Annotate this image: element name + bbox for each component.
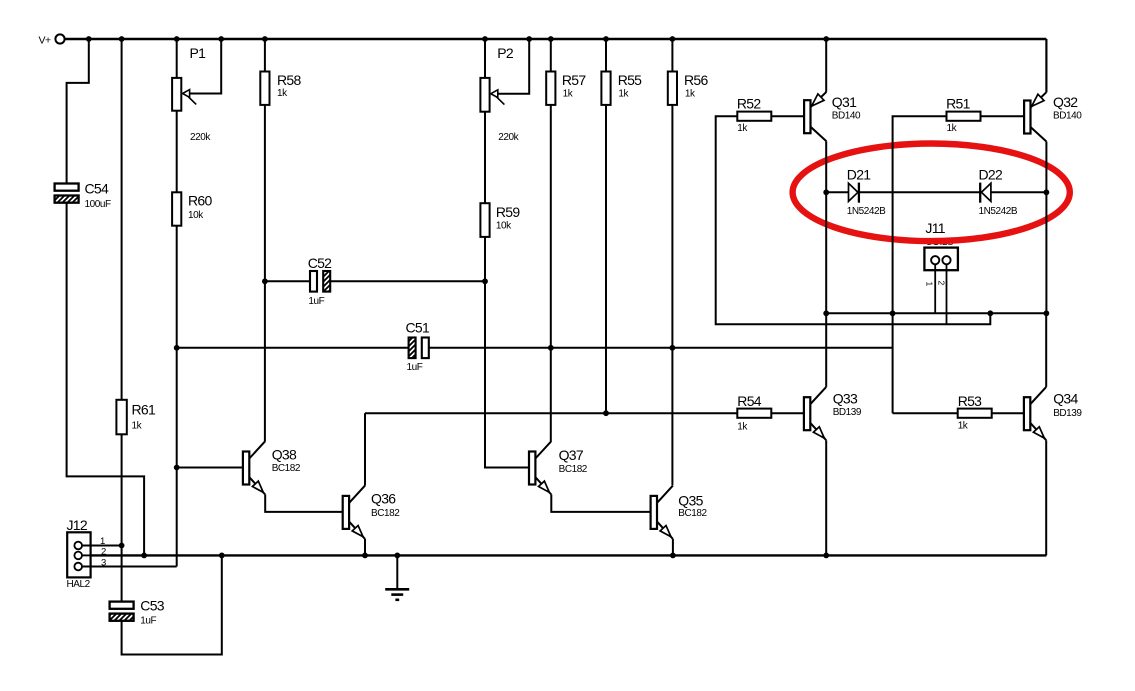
- svg-text:10k: 10k: [188, 210, 204, 221]
- svg-text:1uF: 1uF: [407, 362, 423, 373]
- svg-text:BD140: BD140: [1053, 110, 1082, 121]
- svg-text:D21: D21: [847, 167, 871, 183]
- svg-text:BD139: BD139: [833, 407, 862, 418]
- svg-text:1uF: 1uF: [140, 616, 156, 627]
- svg-text:1k: 1k: [277, 88, 288, 99]
- svg-text:Q37: Q37: [559, 447, 584, 463]
- svg-text:P1: P1: [190, 45, 207, 61]
- svg-text:BC182: BC182: [371, 508, 400, 519]
- svg-text:1k: 1k: [737, 123, 748, 134]
- svg-text:C53: C53: [140, 597, 164, 613]
- svg-text:R56: R56: [684, 72, 708, 88]
- svg-text:1k: 1k: [685, 89, 696, 100]
- svg-text:1k: 1k: [618, 89, 629, 100]
- svg-text:10k: 10k: [496, 220, 512, 231]
- svg-text:100uF: 100uF: [85, 199, 111, 210]
- svg-text:R55: R55: [618, 72, 642, 88]
- svg-text:C52: C52: [308, 255, 332, 271]
- svg-text:1k: 1k: [947, 123, 958, 134]
- svg-text:BC182: BC182: [272, 463, 301, 474]
- svg-text:J12: J12: [67, 517, 88, 533]
- svg-text:Q32: Q32: [1053, 94, 1078, 110]
- svg-text:R61: R61: [132, 402, 156, 418]
- svg-text:Q33: Q33: [833, 390, 858, 406]
- svg-text:1k: 1k: [958, 421, 969, 432]
- svg-text:C54: C54: [85, 181, 109, 197]
- svg-text:R51: R51: [946, 96, 970, 112]
- svg-text:BC182: BC182: [678, 508, 707, 519]
- svg-text:D22: D22: [979, 167, 1003, 183]
- svg-text:R59: R59: [496, 204, 520, 220]
- svg-text:Q36: Q36: [371, 491, 396, 507]
- svg-text:BD139: BD139: [1053, 408, 1082, 419]
- svg-text:R53: R53: [958, 393, 982, 409]
- svg-text:1k: 1k: [563, 89, 574, 100]
- svg-text:1: 1: [924, 282, 934, 287]
- svg-text:Q34: Q34: [1053, 390, 1078, 406]
- svg-text:R60: R60: [188, 193, 212, 209]
- svg-text:2: 2: [936, 281, 946, 286]
- svg-text:Q38: Q38: [272, 446, 297, 462]
- svg-text:Q35: Q35: [678, 493, 703, 509]
- svg-text:R58: R58: [277, 72, 301, 88]
- svg-text:220k: 220k: [190, 132, 211, 143]
- svg-text:220k: 220k: [498, 132, 519, 143]
- svg-text:1N5242B: 1N5242B: [847, 206, 886, 217]
- svg-text:BD140: BD140: [832, 110, 861, 121]
- svg-text:V+: V+: [39, 35, 52, 47]
- svg-text:R54: R54: [737, 393, 761, 409]
- svg-text:1N5242B: 1N5242B: [979, 206, 1018, 217]
- svg-text:C51: C51: [406, 320, 430, 336]
- svg-text:HAL2: HAL2: [67, 579, 91, 590]
- svg-text:BC182: BC182: [559, 464, 588, 475]
- svg-text:R57: R57: [562, 72, 586, 88]
- svg-text:R52: R52: [737, 96, 761, 112]
- svg-text:1k: 1k: [737, 422, 748, 433]
- svg-text:1uF: 1uF: [308, 296, 324, 307]
- svg-text:P2: P2: [497, 45, 514, 61]
- svg-text:J11: J11: [925, 220, 945, 236]
- svg-text:1k: 1k: [132, 421, 143, 432]
- svg-text:Q31: Q31: [832, 94, 857, 110]
